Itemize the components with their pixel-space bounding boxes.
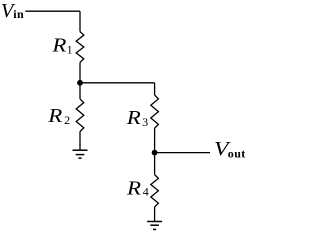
svg-text:R: R [126,106,141,129]
resistor R1 [76,32,84,63]
svg-text:out: out [228,147,246,161]
svg-text:3: 3 [142,115,148,129]
svg-text:R: R [51,34,66,57]
svg-text:2: 2 [64,113,70,127]
wire node A down to R2 [79,83,81,99]
wire node A to right corner [80,82,155,84]
node A junction dot [77,80,83,86]
wire node B to Vout [155,152,210,154]
wire R3 to node B [154,128,156,152]
ground 1 [73,150,88,158]
svg-text:4: 4 [143,184,149,198]
wire node B down to R4 [154,153,156,175]
node Vin label [1,0,24,22]
svg-text:R: R [126,177,141,200]
ground 2 [147,222,162,230]
resistor R3 [151,95,159,128]
label R1 [51,34,72,57]
node Vout label [214,137,246,161]
resistor R4 [151,175,159,207]
label R3 [126,106,148,129]
wire top corner down to R1 [79,11,81,31]
svg-text:1: 1 [67,42,73,56]
wire R1 to node A [79,62,81,82]
label R2 [47,104,70,127]
svg-text:in: in [13,7,24,21]
wire Vin to top corner [25,10,80,12]
node B junction dot [152,150,158,156]
label R4 [126,177,149,200]
wire right corner down to R3 [154,83,156,95]
resistor R2 [76,99,84,132]
svg-text:R: R [47,104,62,127]
wire R2 to ground 1 [79,132,81,151]
wire R4 to ground 2 [154,207,156,222]
